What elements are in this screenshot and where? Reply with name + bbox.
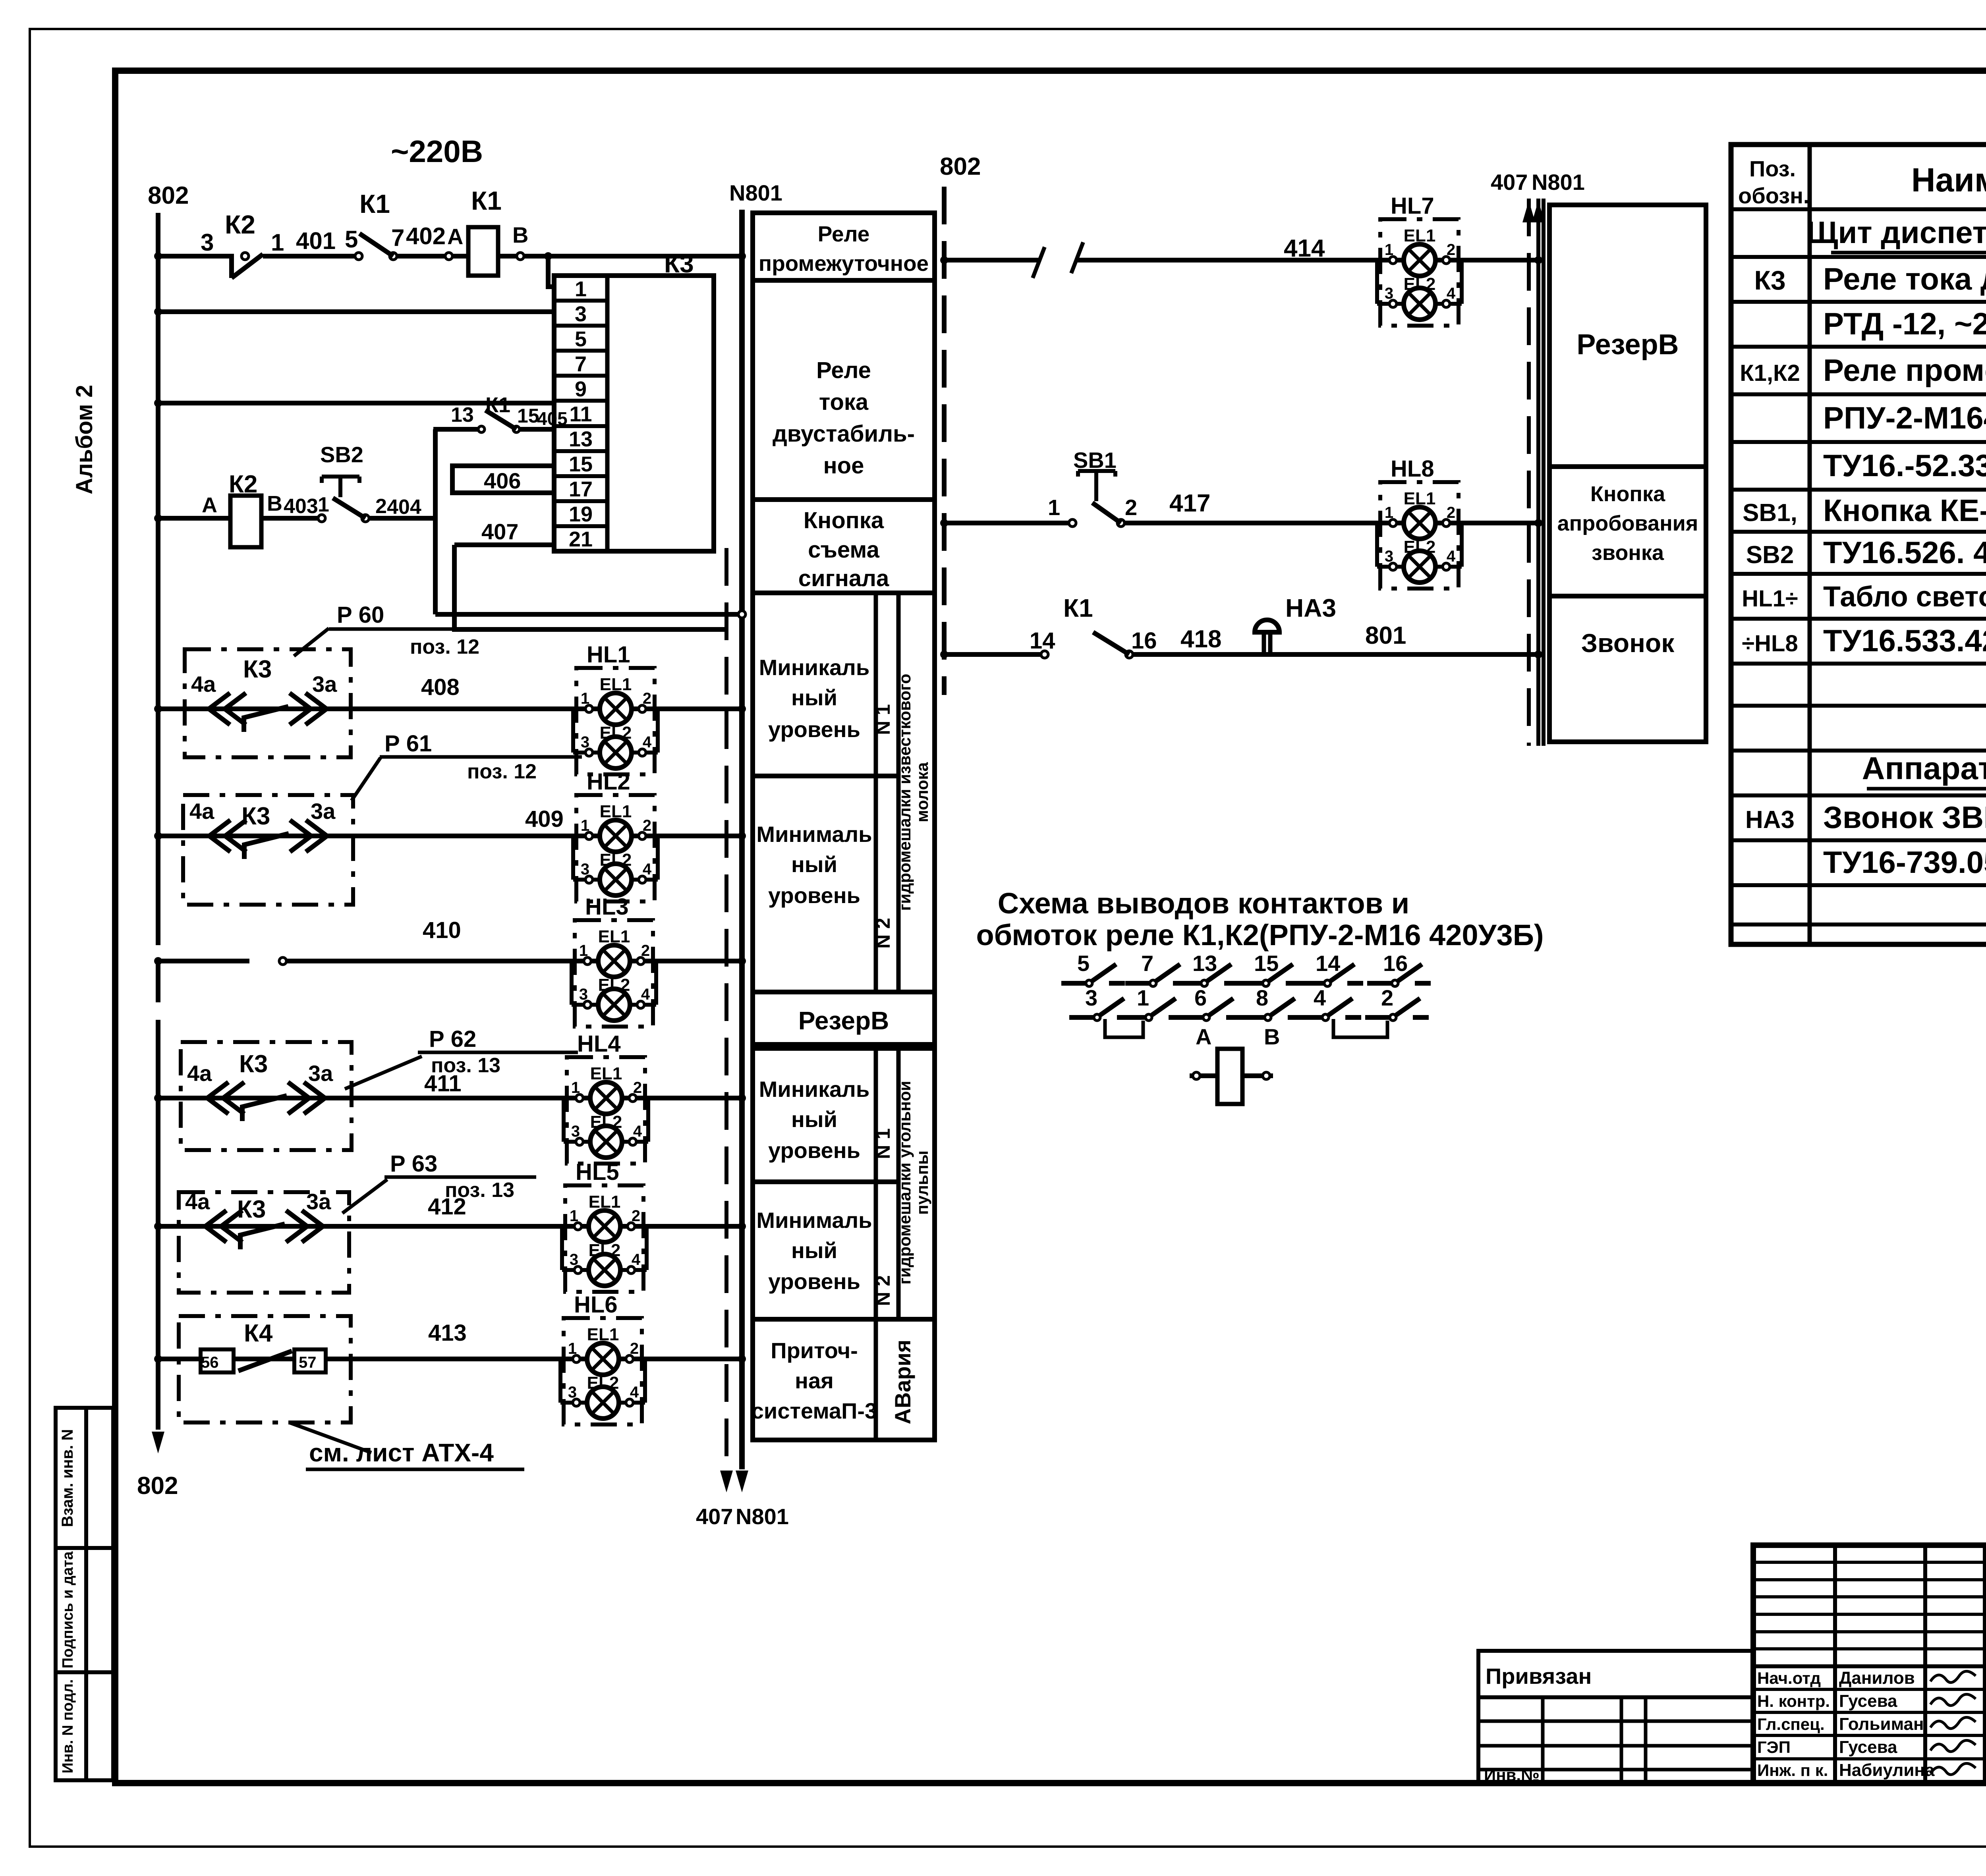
svg-text:ГЭП: ГЭП — [1757, 1738, 1791, 1756]
svg-text:обозн.: обозн. — [1738, 183, 1809, 208]
svg-text:Инв.№: Инв.№ — [1484, 1766, 1540, 1784]
svg-text:4а: 4а — [189, 799, 214, 824]
svg-text:В: В — [1264, 1024, 1280, 1049]
svg-text:19: 19 — [569, 502, 593, 526]
svg-text:1: 1 — [318, 493, 329, 516]
svg-text:4: 4 — [1314, 985, 1326, 1010]
svg-text:15: 15 — [1254, 951, 1279, 976]
svg-text:3: 3 — [1085, 985, 1097, 1010]
svg-text:Поз.: Поз. — [1749, 156, 1796, 181]
svg-text:Привязан: Привязан — [1486, 1664, 1592, 1689]
svg-text:Приточ-: Приточ- — [771, 1338, 858, 1363]
svg-text:405: 405 — [537, 408, 568, 429]
svg-text:АВария: АВария — [890, 1339, 915, 1424]
svg-text:поз. 12: поз. 12 — [410, 635, 479, 658]
svg-text:406: 406 — [484, 468, 521, 493]
svg-text:Инв. N подл.: Инв. N подл. — [60, 1679, 76, 1773]
svg-text:ный: ный — [791, 1238, 837, 1263]
svg-text:Реле промежуточное: Реле промежуточное — [1823, 353, 1986, 388]
svg-text:5: 5 — [1077, 951, 1090, 976]
svg-text:сигнала: сигнала — [798, 566, 889, 591]
svg-text:НА3: НА3 — [1745, 806, 1795, 834]
svg-text:К4: К4 — [244, 1320, 273, 1347]
svg-text:1: 1 — [575, 277, 587, 301]
svg-text:молока: молока — [913, 762, 931, 822]
svg-text:см. лист АТХ-4: см. лист АТХ-4 — [309, 1438, 494, 1467]
svg-text:ТУ16.533.424-79: ТУ16.533.424-79 — [1823, 623, 1986, 658]
svg-text:Данилов: Данилов — [1839, 1668, 1915, 1688]
svg-text:уровень: уровень — [768, 1269, 860, 1294]
svg-text:системаП-3: системаП-3 — [752, 1398, 877, 1423]
svg-text:промежуточное: промежуточное — [759, 251, 929, 276]
svg-text:5: 5 — [575, 327, 587, 351]
svg-text:11: 11 — [569, 402, 592, 426]
svg-text:апробования: апробования — [1557, 511, 1698, 535]
svg-text:В: В — [512, 222, 528, 247]
svg-text:К3: К3 — [1754, 265, 1785, 295]
svg-text:Гольиман: Гольиман — [1839, 1714, 1924, 1734]
svg-text:Наименование: Наименование — [1911, 161, 1986, 199]
svg-text:гидромешалки известкового: гидромешалки известкового — [895, 674, 914, 911]
svg-text:Реле: Реле — [816, 357, 871, 383]
svg-text:2: 2 — [1381, 985, 1393, 1010]
svg-text:403: 403 — [284, 495, 318, 518]
svg-text:413: 413 — [428, 1320, 467, 1346]
svg-text:Кнопка КЕ-011У3 исп.2: Кнопка КЕ-011У3 исп.2 — [1823, 493, 1986, 528]
svg-text:HL3: HL3 — [585, 894, 629, 920]
svg-text:HL1: HL1 — [587, 642, 630, 668]
svg-text:Подпись и дата: Подпись и дата — [60, 1551, 76, 1668]
svg-text:HL7: HL7 — [1391, 193, 1434, 219]
svg-text:ТУ16.-52.3331 - 78: ТУ16.-52.3331 - 78 — [1823, 448, 1986, 483]
svg-text:РезерВ: РезерВ — [798, 1006, 889, 1035]
svg-text:К1: К1 — [359, 189, 390, 218]
svg-text:3а: 3а — [308, 1061, 333, 1086]
svg-text:звонка: звонка — [1592, 541, 1664, 565]
svg-text:Гусева: Гусева — [1839, 1737, 1897, 1757]
svg-text:поз. 12: поз. 12 — [467, 760, 537, 783]
svg-text:801: 801 — [1365, 622, 1406, 649]
svg-text:2: 2 — [375, 495, 387, 518]
svg-text:1: 1 — [271, 229, 284, 256]
svg-text:ТУ16.526. 407-79: ТУ16.526. 407-79 — [1823, 535, 1986, 570]
svg-text:Миникаль: Миникаль — [759, 655, 870, 680]
svg-text:N 1: N 1 — [872, 1128, 894, 1159]
svg-text:Аппаратура по месту: Аппаратура по месту — [1862, 751, 1986, 786]
svg-text:поз. 13: поз. 13 — [445, 1179, 514, 1202]
svg-text:56: 56 — [201, 1354, 219, 1371]
svg-text:13: 13 — [1192, 951, 1217, 976]
svg-text:пульпы: пульпы — [913, 1150, 931, 1215]
svg-text:15: 15 — [517, 405, 539, 427]
svg-text:ное: ное — [823, 453, 864, 479]
svg-text:401: 401 — [296, 228, 336, 254]
svg-text:6: 6 — [1194, 985, 1207, 1010]
svg-text:К2: К2 — [229, 471, 257, 498]
svg-text:Звонок: Звонок — [1581, 628, 1675, 658]
svg-text:13: 13 — [569, 427, 593, 451]
svg-text:3а: 3а — [312, 672, 337, 697]
svg-text:SB1: SB1 — [1073, 448, 1117, 473]
svg-text:N801: N801 — [729, 180, 782, 205]
svg-text:16: 16 — [1383, 951, 1408, 976]
svg-text:414: 414 — [1284, 235, 1325, 262]
svg-text:417: 417 — [1169, 490, 1210, 517]
svg-text:Щит диспетчера. Секция 5: Щит диспетчера. Секция 5 — [1806, 215, 1986, 250]
svg-text:А: А — [202, 493, 217, 517]
svg-text:Н. контр.: Н. контр. — [1757, 1692, 1830, 1710]
svg-text:Минималь: Минималь — [756, 1208, 872, 1233]
svg-text:802: 802 — [940, 153, 981, 180]
svg-text:Схема выводов контактов и: Схема выводов контактов и — [998, 887, 1409, 920]
svg-text:ТУ16-739.059-76: ТУ16-739.059-76 — [1823, 845, 1986, 880]
svg-text:двустабиль-: двустабиль- — [773, 421, 915, 447]
svg-text:Кнопка: Кнопка — [804, 508, 884, 533]
svg-text:Р 62: Р 62 — [429, 1026, 476, 1052]
svg-text:К1: К1 — [471, 186, 502, 215]
svg-text:уровень: уровень — [768, 883, 860, 908]
svg-text:Реле тока двустабильное: Реле тока двустабильное — [1823, 261, 1986, 296]
svg-text:РезерВ: РезерВ — [1576, 329, 1679, 361]
svg-text:уровень: уровень — [768, 717, 860, 742]
svg-text:3а: 3а — [306, 1189, 331, 1214]
svg-text:Кнопка: Кнопка — [1590, 482, 1665, 506]
svg-text:Гл.спец.: Гл.спец. — [1757, 1715, 1825, 1733]
svg-text:802: 802 — [137, 1472, 178, 1500]
svg-text:N 2: N 2 — [872, 1275, 894, 1306]
svg-text:Звонок ЗВП-220: Звонок ЗВП-220 — [1823, 800, 1986, 835]
svg-text:409: 409 — [525, 806, 564, 832]
svg-text:обмоток реле К1,К2(РПУ-2-М16 4: обмоток реле К1,К2(РПУ-2-М16 420У3Б) — [976, 919, 1544, 952]
svg-text:съема: съема — [808, 537, 879, 563]
svg-text:В: В — [267, 492, 282, 515]
svg-text:402: 402 — [406, 223, 446, 249]
svg-text:7: 7 — [1141, 951, 1153, 976]
svg-text:407: 407 — [1491, 170, 1528, 195]
svg-text:3а: 3а — [311, 799, 336, 824]
svg-text:Альбом 2: Альбом 2 — [71, 385, 97, 494]
svg-text:К3: К3 — [241, 803, 270, 830]
svg-text:РТД -12, ~220В: РТД -12, ~220В — [1823, 306, 1986, 341]
svg-text:7: 7 — [391, 224, 404, 251]
svg-text:К2: К2 — [225, 210, 255, 239]
svg-text:Минималь: Минималь — [756, 822, 872, 847]
svg-text:9: 9 — [575, 377, 587, 401]
svg-text:Миникаль: Миникаль — [759, 1077, 870, 1102]
svg-text:1: 1 — [1048, 495, 1060, 520]
svg-text:407: 407 — [481, 519, 518, 544]
svg-text:~220В: ~220В — [391, 134, 483, 169]
svg-text:57: 57 — [299, 1354, 317, 1371]
svg-text:тока: тока — [819, 389, 869, 415]
svg-text:НА3: НА3 — [1285, 594, 1336, 622]
svg-text:Гусева: Гусева — [1839, 1691, 1897, 1711]
svg-text:N801: N801 — [736, 1504, 789, 1529]
svg-text:2: 2 — [1125, 495, 1137, 520]
svg-text:418: 418 — [1180, 625, 1221, 653]
svg-text:SB2: SB2 — [320, 442, 363, 467]
svg-text:Инж. п к.: Инж. п к. — [1757, 1761, 1828, 1779]
svg-text:ный: ный — [791, 1107, 837, 1132]
svg-text:ный: ный — [791, 685, 837, 710]
svg-text:гидромешалки угольной: гидромешалки угольной — [895, 1081, 914, 1285]
svg-text:HL1÷: HL1÷ — [1742, 586, 1798, 612]
svg-text:К1: К1 — [1063, 594, 1093, 622]
svg-text:уровень: уровень — [768, 1138, 860, 1163]
svg-text:К1,К2: К1,К2 — [1740, 360, 1800, 386]
svg-text:HL2: HL2 — [587, 769, 630, 795]
svg-text:16: 16 — [1131, 628, 1157, 654]
svg-text:802: 802 — [148, 182, 189, 209]
svg-text:Нач.отд: Нач.отд — [1757, 1669, 1821, 1687]
svg-text:SB1,: SB1, — [1743, 499, 1797, 527]
svg-text:15: 15 — [569, 452, 593, 476]
svg-text:РПУ-2-М16420; У36 ~220В: РПУ-2-М16420; У36 ~220В — [1823, 400, 1986, 435]
svg-text:1: 1 — [1137, 985, 1149, 1010]
svg-text:К3: К3 — [239, 1050, 268, 1078]
svg-text:ная: ная — [795, 1368, 834, 1393]
svg-text:N801: N801 — [1532, 170, 1585, 195]
svg-text:14: 14 — [1030, 628, 1055, 654]
svg-text:HL4: HL4 — [577, 1031, 621, 1057]
svg-text:407: 407 — [696, 1504, 733, 1529]
svg-text:408: 408 — [421, 674, 460, 700]
svg-text:21: 21 — [569, 527, 593, 551]
svg-text:Р 61: Р 61 — [384, 731, 432, 757]
svg-text:404: 404 — [387, 496, 421, 519]
svg-text:ный: ный — [791, 852, 837, 877]
svg-text:К3: К3 — [243, 656, 272, 683]
svg-text:8: 8 — [1256, 985, 1268, 1010]
svg-text:3: 3 — [575, 302, 587, 326]
svg-text:7: 7 — [575, 352, 587, 376]
svg-text:Взам. инв. N: Взам. инв. N — [59, 1429, 76, 1527]
svg-text:К1: К1 — [485, 393, 510, 417]
svg-text:4а: 4а — [185, 1189, 210, 1214]
svg-text:17: 17 — [569, 477, 593, 501]
svg-text:HL5: HL5 — [576, 1159, 619, 1185]
svg-text:÷HL8: ÷HL8 — [1742, 631, 1798, 656]
svg-text:5: 5 — [345, 226, 358, 253]
svg-text:14: 14 — [1316, 951, 1340, 976]
svg-text:4а: 4а — [191, 672, 216, 697]
svg-text:4а: 4а — [187, 1061, 212, 1086]
svg-text:HL8: HL8 — [1391, 456, 1434, 482]
svg-text:13: 13 — [451, 403, 474, 427]
svg-text:Р 60: Р 60 — [337, 602, 384, 628]
svg-text:Реле: Реле — [818, 222, 870, 246]
svg-text:Табло световое ТС6-Ш-У3-01: Табло световое ТС6-Ш-У3-01 — [1823, 581, 1986, 613]
svg-text:Набиулина: Набиулина — [1839, 1760, 1935, 1780]
svg-text:N 1: N 1 — [872, 704, 894, 735]
svg-text:3: 3 — [201, 229, 214, 256]
svg-text:А: А — [1196, 1024, 1211, 1049]
svg-text:А: А — [447, 224, 463, 249]
svg-text:поз. 13: поз. 13 — [431, 1054, 500, 1077]
svg-text:HL6: HL6 — [574, 1292, 618, 1318]
svg-text:N 2: N 2 — [872, 918, 894, 949]
svg-text:410: 410 — [423, 917, 461, 943]
svg-text:Р 63: Р 63 — [390, 1151, 437, 1177]
svg-text:К3: К3 — [237, 1196, 266, 1223]
svg-text:SB2: SB2 — [1746, 541, 1794, 569]
